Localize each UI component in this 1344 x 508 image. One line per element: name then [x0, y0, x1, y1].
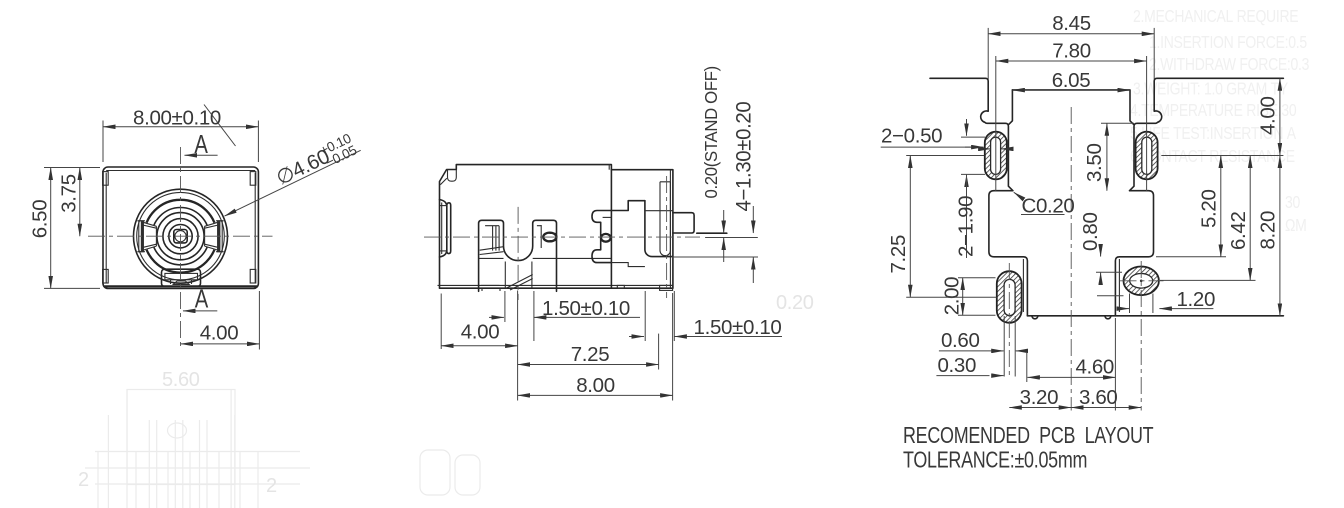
svg-text:A: A	[195, 284, 209, 313]
svg-text:5.60: 5.60	[162, 369, 200, 391]
svg-text:RECOMENDED PCB LAYOUT: RECOMENDED PCB LAYOUT	[903, 423, 1154, 449]
svg-text:2−1.90: 2−1.90	[955, 196, 978, 257]
svg-text:6.42: 6.42	[1227, 212, 1250, 251]
svg-text:7.25: 7.25	[571, 343, 610, 366]
svg-text:ΩM: ΩM	[1285, 217, 1307, 236]
svg-text:4.60: 4.60	[1075, 356, 1114, 379]
svg-text:0.20: 0.20	[776, 292, 814, 314]
svg-text:3.20: 3.20	[1020, 386, 1059, 409]
svg-text:5.20: 5.20	[1198, 190, 1221, 229]
svg-text:8.45: 8.45	[1052, 12, 1091, 35]
svg-text:4.00: 4.00	[200, 321, 239, 344]
svg-text:30: 30	[1285, 194, 1300, 213]
svg-text:3.WEIGHT: 1.0 GRAM TY: 3.WEIGHT: 1.0 GRAM TY	[1133, 80, 1289, 99]
svg-text:7.80: 7.80	[1052, 39, 1091, 62]
svg-text:2: 2	[78, 469, 89, 491]
svg-text:3.50: 3.50	[1083, 144, 1106, 183]
svg-text:2: 2	[266, 475, 277, 497]
svg-text:1.INSERTION FORCE:0.5: 1.INSERTION FORCE:0.5	[1149, 34, 1307, 53]
svg-text:6.50: 6.50	[29, 200, 52, 239]
svg-text:1.50±0.10: 1.50±0.10	[542, 297, 630, 320]
svg-text:4.00: 4.00	[461, 321, 500, 344]
svg-text:1.20: 1.20	[1177, 288, 1216, 311]
svg-text:4−1.30±0.20: 4−1.30±0.20	[732, 102, 755, 212]
svg-text:A: A	[194, 130, 208, 159]
svg-text:7.25: 7.25	[887, 235, 910, 274]
svg-text:2.MECHANICAL REQUIRE: 2.MECHANICAL REQUIRE	[1133, 8, 1298, 27]
svg-text:0.30: 0.30	[938, 354, 977, 377]
svg-text:8.20: 8.20	[1257, 211, 1280, 250]
svg-text:2.WITHDRAW FORCE:0.3: 2.WITHDRAW FORCE:0.3	[1149, 56, 1310, 75]
svg-text:0.60: 0.60	[941, 329, 980, 352]
svg-text:1.50±0.10: 1.50±0.10	[694, 316, 782, 339]
svg-text:0.20(STAND OFF): 0.20(STAND OFF)	[700, 66, 721, 198]
svg-text:3.75: 3.75	[57, 174, 80, 213]
svg-text:0.80: 0.80	[1079, 213, 1102, 252]
svg-text:4.00: 4.00	[1257, 97, 1280, 136]
svg-text:8.00: 8.00	[576, 374, 615, 397]
svg-text:3.60: 3.60	[1079, 386, 1118, 409]
svg-text:2−0.50: 2−0.50	[881, 124, 942, 147]
svg-text:6.05: 6.05	[1052, 69, 1091, 92]
svg-text:2.00: 2.00	[940, 277, 963, 316]
svg-text:TOLERANCE:±0.05mm: TOLERANCE:±0.05mm	[903, 447, 1087, 473]
